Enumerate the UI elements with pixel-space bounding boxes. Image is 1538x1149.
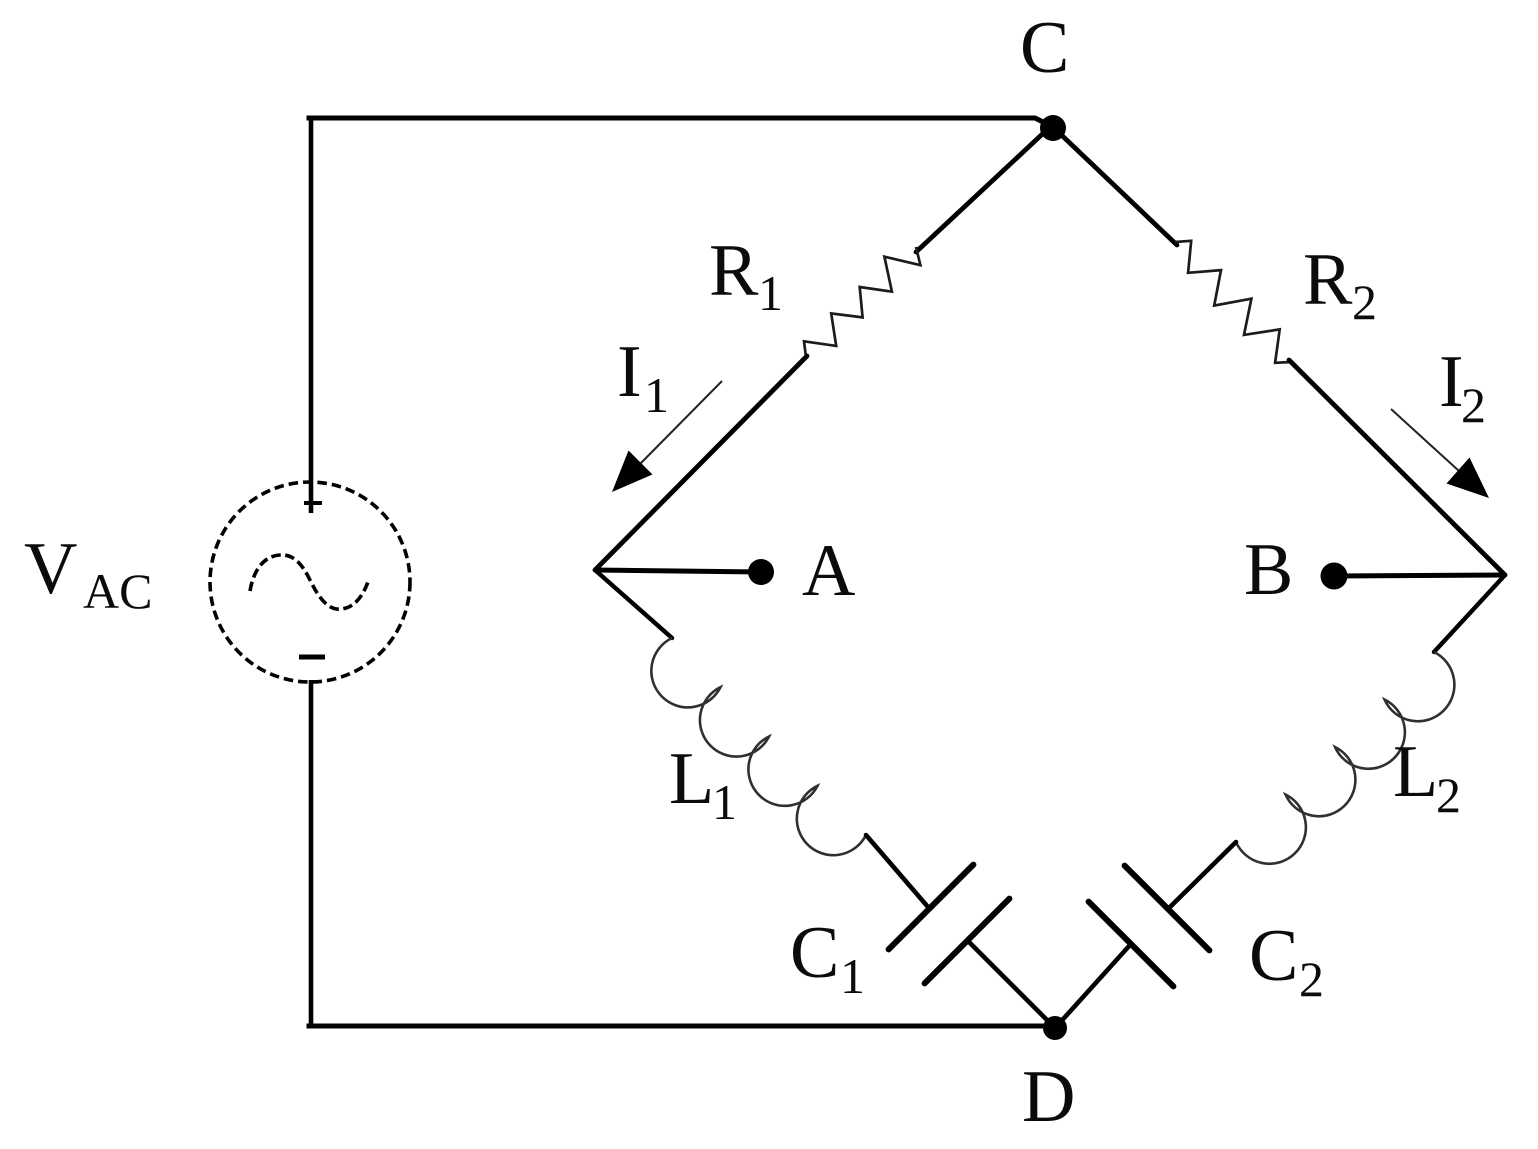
svg-text:I: I xyxy=(617,331,642,413)
node B (junction dot) xyxy=(1321,563,1348,590)
wire: inductor L2 to capacitor C2 xyxy=(1170,842,1236,907)
node D (junction dot) xyxy=(1043,1016,1067,1040)
inductor L1 (coil) xyxy=(651,638,866,855)
label R2 xyxy=(1303,239,1377,330)
svg-text:V: V xyxy=(24,528,77,610)
svg-text:C: C xyxy=(790,912,839,994)
resistor R2 (zigzag) xyxy=(1175,241,1291,363)
inductor L2 (coil) xyxy=(1236,652,1454,864)
svg-text:1: 1 xyxy=(840,948,865,1004)
svg-text:L: L xyxy=(1393,731,1438,813)
svg-text:C: C xyxy=(1020,7,1069,89)
current arrow I1 xyxy=(612,381,722,492)
svg-text:L: L xyxy=(669,738,714,820)
label A xyxy=(802,530,855,612)
svg-text:1: 1 xyxy=(712,774,737,830)
svg-text:A: A xyxy=(802,530,855,612)
node A (junction dot) xyxy=(748,559,774,585)
label V_AC xyxy=(24,528,152,619)
capacitor C2 plate 1 xyxy=(1125,866,1210,951)
svg-text:R: R xyxy=(1303,239,1353,321)
wire: left vertex to inductor L1 xyxy=(595,570,672,638)
wire: capacitor C2 to node D xyxy=(1056,945,1130,1027)
label L2 xyxy=(1393,731,1461,823)
capacitor C1 plate 1 xyxy=(889,865,974,950)
capacitor C2 plate 2 xyxy=(1089,902,1174,987)
label R1 xyxy=(709,230,783,321)
label L1 xyxy=(669,738,737,830)
wire: node B to right vertex xyxy=(1334,575,1505,576)
label C xyxy=(1020,7,1069,89)
svg-text:2: 2 xyxy=(1436,767,1461,823)
label I1 xyxy=(617,331,669,423)
wire: resistor R2 to right vertex B xyxy=(1289,360,1505,575)
wire: bottom horizontal from source to node D xyxy=(309,1024,1053,1029)
label C2 xyxy=(1249,915,1324,1007)
svg-text:1: 1 xyxy=(644,367,669,423)
svg-text:B: B xyxy=(1244,529,1293,611)
label B xyxy=(1244,529,1293,611)
wire: left vertical lower (source - terminal to bottom wire) xyxy=(309,680,314,1026)
svg-text:2: 2 xyxy=(1461,377,1486,433)
wire: capacitor C1 to node D xyxy=(968,941,1054,1027)
wire: inductor L1 to capacitor C1 xyxy=(866,835,928,907)
svg-text:I: I xyxy=(1439,341,1464,423)
wire: left vertex to node A xyxy=(595,570,761,572)
svg-text:AC: AC xyxy=(83,563,152,619)
svg-text:2: 2 xyxy=(1299,951,1324,1007)
svg-text:R: R xyxy=(709,230,759,312)
svg-text:D: D xyxy=(1022,1056,1075,1138)
label D xyxy=(1022,1056,1075,1138)
label C1 xyxy=(790,912,865,1004)
AC source V_AC (dashed circle) xyxy=(210,482,410,682)
node C (junction dot) xyxy=(1040,115,1066,141)
wire: resistor R1 to left vertex A xyxy=(595,356,807,570)
capacitor C1 plate 2 xyxy=(925,899,1010,984)
wire: top horizontal from source to node C xyxy=(309,118,1051,126)
svg-text:1: 1 xyxy=(758,265,783,321)
svg-text:C: C xyxy=(1249,915,1298,997)
wire: left vertical upper (source + terminal to top wire) xyxy=(309,116,314,513)
AC source minus terminal xyxy=(299,655,325,660)
AC source plus terminal xyxy=(304,501,322,505)
resistor R1 (zigzag) xyxy=(804,247,920,357)
label I2 xyxy=(1439,341,1486,433)
svg-text:2: 2 xyxy=(1352,274,1377,330)
wire: right vertex to inductor L2 xyxy=(1434,575,1505,652)
wire: node C to resistor R2 xyxy=(1053,127,1177,245)
AC source sine wave xyxy=(250,555,369,609)
current arrow I2 xyxy=(1391,409,1489,498)
wire: node C to resistor R1 xyxy=(916,126,1051,252)
